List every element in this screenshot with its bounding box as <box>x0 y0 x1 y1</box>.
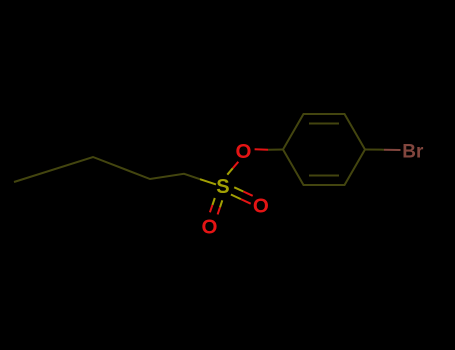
svg-text:O: O <box>253 195 269 218</box>
svg-text:O: O <box>236 140 252 163</box>
svg-text:S: S <box>216 176 229 198</box>
svg-text:Br: Br <box>402 142 424 163</box>
svg-text:O: O <box>202 215 218 238</box>
